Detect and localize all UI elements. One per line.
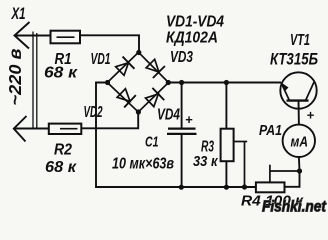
node PA1/R4 junction <box>297 168 302 173</box>
X1 pin arrow top <box>15 22 30 49</box>
wire PA1 bottom to R4 <box>285 157 300 187</box>
transistor VT1 <box>280 72 316 108</box>
diode VD4 <box>144 88 164 109</box>
svg-text:VD1: VD1 <box>91 51 111 68</box>
wire minus: left vertex down to bottom rail <box>96 83 256 188</box>
wire bottom from plug to R2 <box>14 128 49 130</box>
VT1 collector <box>306 81 315 101</box>
X1 pin arrow bottom <box>14 116 27 142</box>
resistor R1 <box>51 31 81 44</box>
node C1 top <box>179 80 184 85</box>
svg-text:X1: X1 <box>11 5 26 23</box>
R3 wiper tap <box>234 141 247 143</box>
node R3 top <box>224 80 229 85</box>
svg-text:10 мк×63в: 10 мк×63в <box>112 156 174 173</box>
resistor R4 <box>256 182 285 192</box>
svg-text:VD4: VD4 <box>157 107 180 124</box>
svg-text:68 к: 68 к <box>45 159 77 176</box>
wire R4 wiper to PA1 <box>270 170 300 172</box>
diode VD1 <box>114 57 134 78</box>
diode VD2 <box>115 87 135 108</box>
svg-text:КД102А: КД102А <box>166 30 218 47</box>
bridge diamond wires <box>107 52 168 112</box>
node C1 bottom <box>179 185 184 190</box>
VT1 base lead down <box>298 101 300 125</box>
wire R2 to bridge bottom <box>81 112 138 128</box>
meter PA1 <box>283 125 315 157</box>
svg-text:+: + <box>185 112 193 127</box>
svg-text:+: + <box>307 108 315 123</box>
diode VD3 <box>144 58 165 79</box>
capacitor C1 <box>181 83 183 129</box>
svg-text:Fishki.net: Fishki.net <box>262 199 327 216</box>
svg-text:R2: R2 <box>54 142 72 159</box>
node top vertex <box>136 50 141 55</box>
svg-text:33 к: 33 к <box>193 153 219 170</box>
svg-text:VT1: VT1 <box>290 32 310 49</box>
svg-text:PA1: PA1 <box>259 122 282 139</box>
svg-text:~220 в: ~220 в <box>5 48 25 105</box>
svg-text:мА: мА <box>291 134 309 151</box>
wire plus rail to transistor <box>168 82 281 84</box>
wire R1 to bridge top <box>80 35 139 52</box>
wire top from plug to R1 <box>15 35 51 37</box>
svg-text:68 к: 68 к <box>44 65 78 82</box>
node left vertex <box>105 80 110 85</box>
svg-text:VD3: VD3 <box>170 49 193 66</box>
node bottom vertex <box>136 109 141 114</box>
node R3 bottom <box>224 185 229 190</box>
svg-text:C1: C1 <box>145 134 159 151</box>
VT1 emitter with arrow <box>281 83 290 101</box>
node R3 tap / rail <box>242 184 247 189</box>
resistor R3 trimmer <box>225 83 227 130</box>
svg-text:VD2: VD2 <box>84 104 103 121</box>
svg-text:КТ315Б: КТ315Б <box>270 51 318 69</box>
svg-text:VD1-VD4: VD1-VD4 <box>166 14 224 31</box>
VT1 base bar <box>287 99 309 101</box>
R4 wiper stem <box>269 165 271 183</box>
resistor R2 <box>49 124 82 134</box>
connector X1 housing lines <box>32 32 34 129</box>
node right vertex <box>166 80 171 85</box>
